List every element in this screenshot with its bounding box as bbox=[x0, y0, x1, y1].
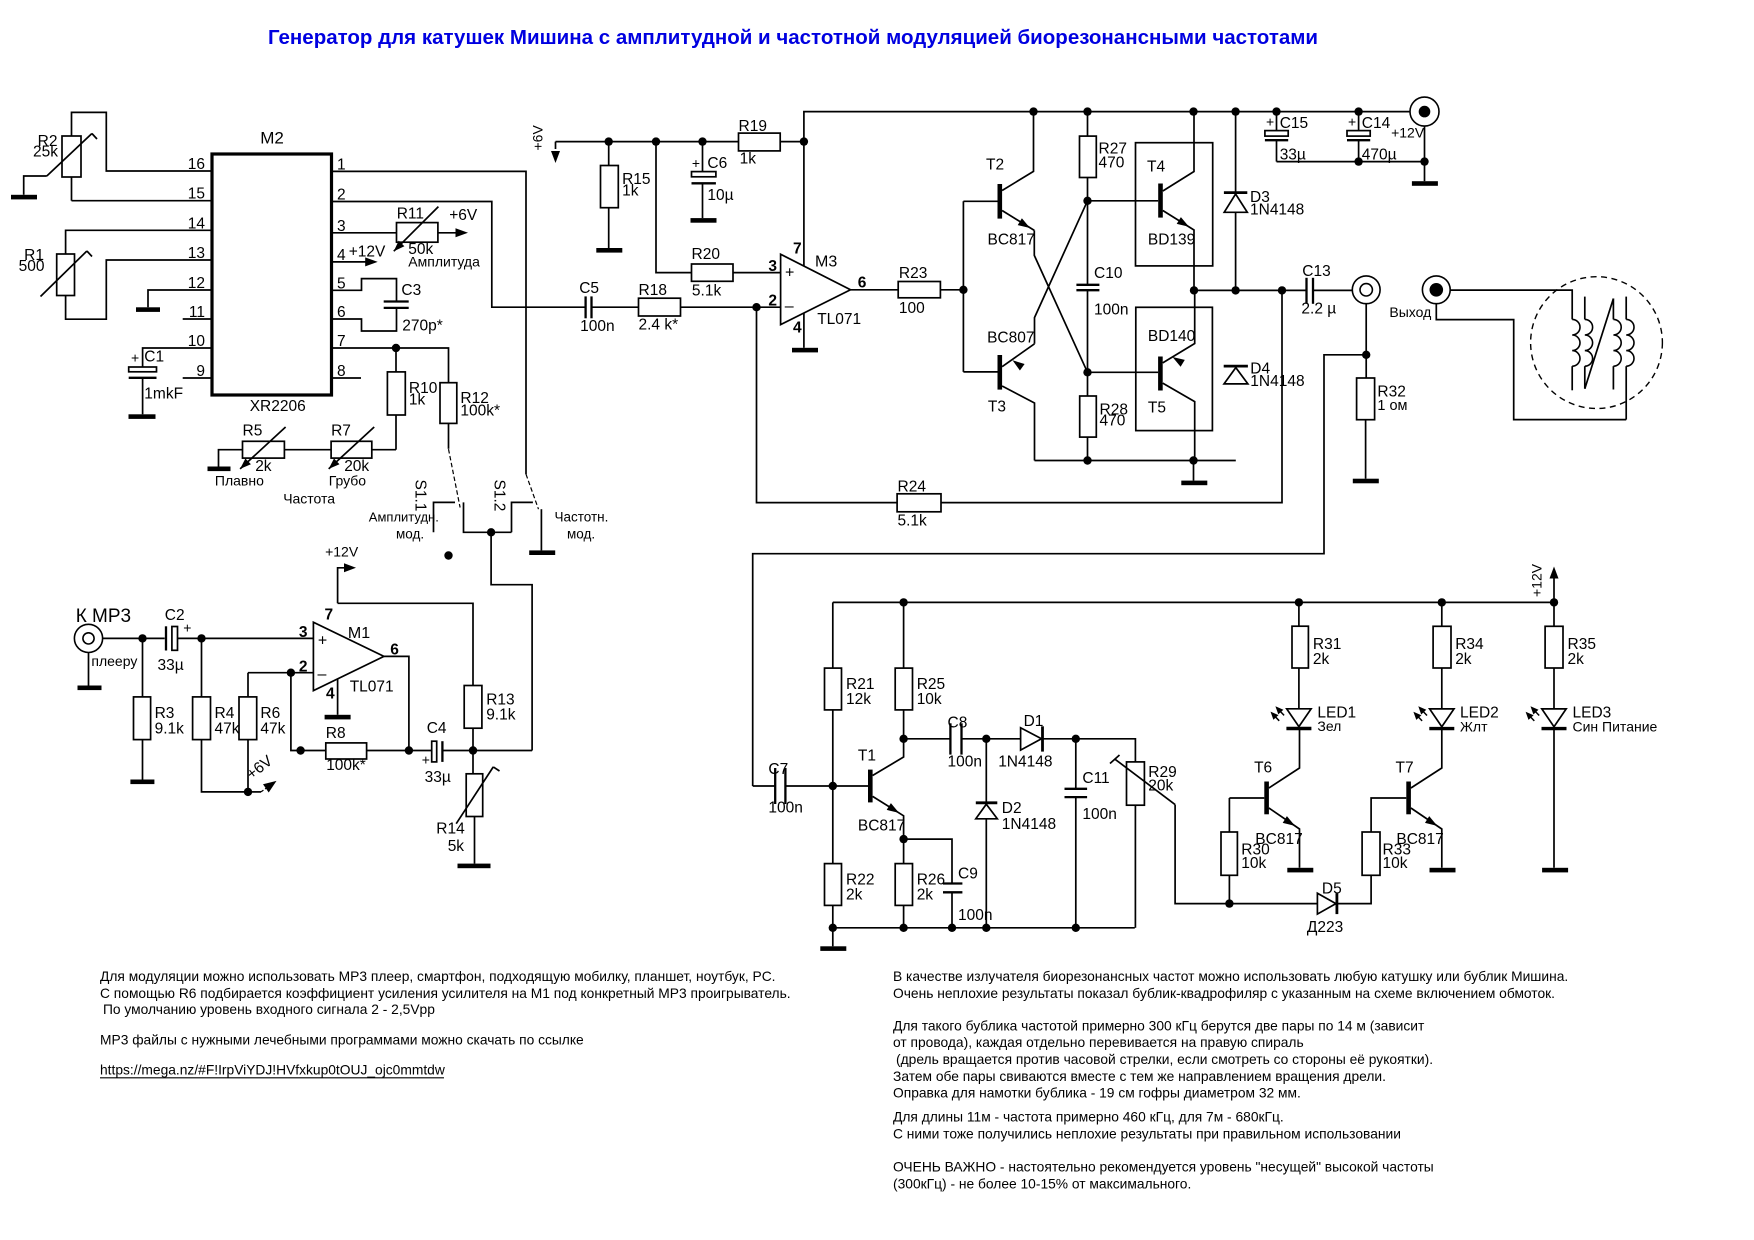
wire M1 output bbox=[384, 656, 409, 750]
wire pin 9 stub bbox=[183, 377, 212, 379]
capacitor C11 100n bbox=[1065, 739, 1117, 928]
resistor R27 470 bbox=[1080, 112, 1127, 201]
svg-text:M1: M1 bbox=[348, 625, 370, 642]
coil winding 3 bbox=[1613, 299, 1621, 390]
svg-text:D2: D2 bbox=[1002, 800, 1022, 817]
node R28 bottom bbox=[1083, 456, 1091, 464]
node R8 left bbox=[296, 746, 304, 754]
svg-text:R4: R4 bbox=[215, 705, 235, 722]
svg-text:(дрель вращается против часово: (дрель вращается против часовой стрелки,… bbox=[896, 1052, 1433, 1067]
wire R2 wiper to ground bbox=[24, 176, 47, 195]
transistor T4 BD139 bbox=[1088, 112, 1196, 291]
svg-text:Частота: Частота bbox=[283, 491, 335, 507]
svg-text:5.1k: 5.1k bbox=[692, 282, 722, 299]
wire feedback to C7 line bbox=[753, 355, 1366, 786]
svg-text:TL071: TL071 bbox=[350, 679, 394, 696]
+6V supply arrow bbox=[530, 125, 561, 163]
svg-text:1mkF: 1mkF bbox=[144, 386, 183, 403]
op-amp M3 TL071 bbox=[781, 254, 862, 329]
M2 pin 12 label bbox=[188, 275, 205, 292]
svg-text:47k: 47k bbox=[260, 721, 285, 738]
svg-text:R14: R14 bbox=[436, 821, 465, 838]
node R23 out bbox=[959, 286, 967, 294]
M2 pin 4 label bbox=[337, 247, 346, 264]
ground at LED3 bbox=[1542, 868, 1568, 873]
wire M3 output bbox=[851, 289, 899, 291]
wire R2 bottom to pin 15 bbox=[72, 177, 213, 201]
svg-text:100k*: 100k* bbox=[326, 757, 366, 774]
svg-text:В качестве излучателя биорезон: В качестве излучателя биорезонансных час… bbox=[893, 969, 1568, 984]
svg-text:470: 470 bbox=[1100, 413, 1126, 430]
M2 pin 14 label bbox=[188, 215, 206, 232]
connector K MP3 bbox=[74, 606, 137, 669]
resistor R24 5.1k bbox=[897, 290, 1282, 529]
node +12V connector bottom bbox=[1420, 157, 1428, 165]
wire pin 12 to ground bbox=[148, 290, 212, 307]
svg-text:Амплитудн.: Амплитудн. bbox=[369, 510, 439, 525]
switch S1.2 bbox=[491, 474, 542, 550]
svg-text:BD140: BD140 bbox=[1148, 328, 1196, 345]
diode D5 D223 bbox=[1229, 875, 1371, 936]
resistor R26 2k bbox=[895, 839, 945, 928]
stray junction dot bbox=[444, 551, 452, 559]
M2 pin 5 label bbox=[337, 275, 346, 292]
svg-text:2.2 µ: 2.2 µ bbox=[1301, 301, 1336, 318]
wire T2 T3 base rail bbox=[962, 201, 964, 372]
svg-text:D1: D1 bbox=[1024, 713, 1044, 730]
node rail R34 bbox=[1438, 598, 1446, 606]
node gnd rail R26 bbox=[899, 924, 907, 932]
svg-text:T2: T2 bbox=[986, 157, 1004, 174]
wire M1 pin7 to R13 bbox=[338, 603, 473, 685]
+6V arrow at R6 bbox=[243, 752, 276, 792]
node T1 base bbox=[829, 782, 837, 790]
svg-text:+12V: +12V bbox=[1529, 563, 1545, 597]
svg-text:R7: R7 bbox=[331, 423, 351, 440]
coil winding 2 bbox=[1585, 297, 1593, 389]
svg-text:T6: T6 bbox=[1254, 760, 1272, 777]
label Частотн. мод. bbox=[555, 510, 609, 542]
connector output signal bbox=[1352, 276, 1380, 304]
svg-text:1 ом: 1 ом bbox=[1377, 398, 1407, 414]
svg-text:Оправка для намотки бублика -: Оправка для намотки бублика - 19 см гофр… bbox=[893, 1086, 1301, 1101]
M1 pin 4 label bbox=[326, 686, 335, 703]
node rail C6 bbox=[698, 137, 706, 145]
svg-text:от провода), каждая отдельно п: от провода), каждая отдельно перевиваетс… bbox=[893, 1035, 1304, 1050]
svg-text:3: 3 bbox=[299, 624, 308, 641]
svg-text:2k: 2k bbox=[1455, 651, 1472, 668]
svg-text:R20: R20 bbox=[692, 246, 721, 263]
capacitor C7 100n bbox=[753, 761, 833, 817]
switch S1.1 bbox=[412, 449, 512, 532]
wire M1 inv down to R8 bbox=[291, 673, 326, 751]
svg-text:Генератор для катушек Мишина с: Генератор для катушек Мишина с амплитудн… bbox=[268, 26, 1318, 49]
M3 pin 7 label bbox=[793, 241, 802, 258]
ground at LED section bbox=[820, 928, 846, 951]
title text bbox=[268, 26, 1318, 49]
resistor R29 20k variable bbox=[1110, 755, 1177, 928]
M2 pin 3 label bbox=[337, 218, 346, 235]
node M3 inverting input bbox=[752, 303, 760, 311]
wire coil feed top bbox=[1450, 290, 1572, 319]
M3 pin 2 label bbox=[768, 293, 777, 310]
diode D1 1N4148 bbox=[998, 713, 1076, 771]
node gnd rail D2 bbox=[982, 924, 990, 932]
svg-text:2: 2 bbox=[768, 293, 777, 310]
LED2 yellow bbox=[1413, 705, 1498, 735]
wire ground rail bbox=[833, 927, 1135, 929]
capacitor C14 470u bbox=[1347, 112, 1397, 164]
ground at C1 bbox=[129, 414, 156, 419]
svg-text:C8: C8 bbox=[948, 715, 968, 732]
capacitor C4 33u bbox=[422, 720, 473, 786]
wire mid rail bbox=[1194, 289, 1307, 291]
resistor R25 10k bbox=[895, 602, 945, 738]
svg-text:3: 3 bbox=[768, 258, 777, 275]
wire pin 2 to C5 bbox=[332, 202, 586, 308]
svg-text:100: 100 bbox=[899, 300, 925, 317]
resistor R1 500 bbox=[19, 247, 92, 297]
M1 pin 3 label bbox=[299, 624, 308, 641]
box T5 bbox=[1136, 307, 1213, 430]
resistor R3 9.1k bbox=[134, 638, 185, 779]
svg-text:TL071: TL071 bbox=[817, 311, 861, 328]
resistor R34 2k bbox=[1433, 602, 1484, 709]
svg-text:Для модуляции можно использова: Для модуляции можно использовать MP3 пле… bbox=[100, 969, 776, 984]
svg-text:C10: C10 bbox=[1094, 265, 1123, 282]
capacitor C2 33u bbox=[158, 607, 202, 674]
node S1 junction bbox=[487, 528, 495, 536]
link text bbox=[100, 1062, 445, 1078]
diode D4 1N4148 bbox=[1224, 361, 1305, 391]
svg-text:2k: 2k bbox=[846, 887, 863, 904]
coil circle dashed bbox=[1531, 277, 1663, 409]
resistor R30 10k bbox=[1221, 798, 1270, 904]
connector output return bbox=[1389, 276, 1450, 320]
resistor R13 9.1k bbox=[464, 686, 516, 751]
wire R1 bottom to pin 13 bbox=[66, 260, 212, 319]
svg-text:10µ: 10µ bbox=[707, 187, 733, 204]
svg-text:+6V: +6V bbox=[530, 125, 546, 151]
M2 pin 6 label bbox=[337, 304, 346, 321]
resistor R5 2k variable bbox=[215, 423, 286, 489]
svg-text:+: + bbox=[422, 752, 430, 768]
svg-text:270p*: 270p* bbox=[402, 318, 443, 335]
node R8 right bbox=[405, 746, 413, 754]
M3 pin 3 label bbox=[768, 258, 777, 275]
M1 pin4 ground bbox=[325, 679, 351, 719]
node R4 R6 bottom bbox=[244, 788, 252, 796]
wire R5 to R7 bbox=[284, 449, 331, 451]
svg-text:С помощью R6 подбирается коэфф: С помощью R6 подбирается коэффициент уси… bbox=[100, 986, 791, 1001]
svg-text:+: + bbox=[692, 155, 700, 171]
svg-text:BD139: BD139 bbox=[1148, 231, 1195, 248]
svg-text:T4: T4 bbox=[1147, 159, 1165, 176]
resistor R35 2k bbox=[1545, 602, 1596, 709]
svg-text:100n: 100n bbox=[1082, 806, 1116, 823]
svg-text:1k: 1k bbox=[622, 183, 639, 200]
svg-text:R6: R6 bbox=[260, 705, 280, 722]
ground at R3 bbox=[130, 780, 154, 785]
svg-text:9.1k: 9.1k bbox=[155, 721, 185, 738]
resistor R7 20k variable bbox=[329, 423, 375, 489]
wire pin 10 to C1 bbox=[143, 348, 212, 367]
M3 pin 6 label bbox=[858, 275, 867, 292]
svg-text:25k: 25k bbox=[33, 144, 58, 161]
svg-text:D5: D5 bbox=[1322, 881, 1342, 898]
wire M3 inv to R24 bbox=[757, 307, 898, 502]
M1 pin 6 label bbox=[390, 642, 399, 659]
node D3 bottom bbox=[1231, 286, 1239, 294]
ground at R14 bbox=[458, 864, 491, 869]
svg-text:100n: 100n bbox=[948, 754, 982, 771]
capacitor C13 2.2u bbox=[1301, 263, 1352, 318]
wire +6V rail bbox=[556, 141, 739, 143]
node R30 bottom bbox=[1225, 899, 1233, 907]
capacitor C8 100n bbox=[904, 715, 1021, 771]
resistor R31 2k bbox=[1292, 602, 1341, 708]
svg-text:C5: C5 bbox=[579, 280, 599, 297]
svg-text:C7: C7 bbox=[768, 761, 788, 778]
svg-text:500: 500 bbox=[19, 258, 45, 275]
svg-text:мод.: мод. bbox=[396, 527, 424, 542]
connector +12V bbox=[1391, 97, 1439, 181]
svg-text:+: + bbox=[318, 633, 327, 650]
diode D2 1N4148 bbox=[976, 739, 1056, 928]
wire D1 to R29 bbox=[1076, 739, 1136, 762]
svg-text:5k: 5k bbox=[448, 838, 465, 855]
svg-text:C11: C11 bbox=[1082, 770, 1109, 787]
svg-text:M3: M3 bbox=[815, 254, 837, 271]
svg-text:1N4148: 1N4148 bbox=[998, 754, 1052, 771]
transistor T6 BC817 bbox=[1254, 727, 1303, 868]
M2 pin 8 label bbox=[337, 363, 346, 380]
box T4 bbox=[1136, 143, 1213, 266]
svg-text:C13: C13 bbox=[1302, 263, 1330, 280]
node bottom rail T5 bbox=[1189, 456, 1197, 464]
wire T3 emitter cross bbox=[1035, 201, 1088, 344]
svg-text:2.4 k*: 2.4 k* bbox=[639, 317, 679, 334]
M2 pin 10 label bbox=[188, 333, 206, 350]
wire pin 5 bracket bbox=[332, 279, 397, 302]
svg-text:Зел: Зел bbox=[1317, 718, 1341, 734]
svg-text:7: 7 bbox=[793, 241, 802, 258]
svg-text:5.1k: 5.1k bbox=[898, 513, 928, 530]
node C4 R13 R14 junction bbox=[469, 746, 477, 754]
svg-text:C1: C1 bbox=[144, 349, 164, 366]
svg-text:+: + bbox=[785, 265, 794, 282]
+12V arrow LED rail bbox=[1529, 563, 1559, 602]
svg-text:2k: 2k bbox=[1313, 651, 1330, 668]
node gnd rail C11 bbox=[1072, 924, 1080, 932]
svg-text:BC817: BC817 bbox=[1396, 831, 1443, 848]
node rail R31 bbox=[1295, 598, 1303, 606]
node R27 bottom bbox=[1083, 197, 1091, 205]
resistor R22 2k bbox=[825, 786, 875, 928]
svg-text:Очень неплохие результаты пока: Очень неплохие результаты показал бублик… bbox=[893, 986, 1555, 1001]
wire MP3 to C2 bbox=[103, 637, 165, 639]
M2 pin 2 label bbox=[337, 187, 346, 204]
svg-text:+: + bbox=[1266, 114, 1274, 130]
svg-text:+: + bbox=[131, 350, 139, 366]
wire R29 wiper down bbox=[1175, 805, 1229, 904]
capacitor C1 1mkF bbox=[129, 349, 183, 415]
resistor R12 100k bbox=[440, 383, 500, 449]
resistor R28 470 bbox=[1080, 372, 1128, 460]
resistor R10 1k bbox=[387, 348, 437, 450]
svg-text:2k: 2k bbox=[917, 887, 934, 904]
svg-text:BC817: BC817 bbox=[858, 818, 905, 835]
transistor T2 BC817 bbox=[963, 112, 1035, 249]
ground output stage bbox=[1181, 461, 1207, 486]
svg-text:20k: 20k bbox=[1148, 778, 1173, 795]
svg-text:Частотн.: Частотн. bbox=[555, 510, 609, 525]
svg-text:1k: 1k bbox=[409, 392, 426, 409]
wire coil feed bottom bbox=[1436, 304, 1626, 420]
node C11 top bbox=[1072, 735, 1080, 743]
resistor R14 5k variable bbox=[436, 751, 499, 864]
node D1 C8 bbox=[982, 735, 990, 743]
node rail R20 bbox=[652, 137, 660, 145]
svg-text:M2: M2 bbox=[260, 129, 284, 148]
ground at R5 bbox=[208, 450, 243, 471]
svg-text:Д223: Д223 bbox=[1307, 919, 1343, 936]
wire pin 4 +12V bbox=[332, 244, 386, 267]
svg-text:C4: C4 bbox=[427, 720, 447, 737]
resistor R33 10k bbox=[1362, 798, 1411, 875]
node rail R25 bbox=[899, 598, 907, 606]
wire pin 1 to S1.2 bbox=[332, 171, 527, 474]
coil winding 4 bbox=[1626, 297, 1634, 420]
svg-text:R5: R5 bbox=[243, 423, 263, 440]
svg-text:С ними тоже получились неплохи: С ними тоже получились неплохие результа… bbox=[893, 1127, 1401, 1142]
text block left bbox=[100, 969, 791, 1048]
wire pin 3 to R11 bbox=[332, 232, 397, 234]
svg-text:+12V: +12V bbox=[1391, 125, 1425, 141]
svg-text:мод.: мод. bbox=[567, 527, 595, 542]
M3 pin 4 label bbox=[793, 320, 802, 337]
svg-text:XR2206: XR2206 bbox=[250, 398, 306, 415]
svg-text:4: 4 bbox=[793, 320, 802, 337]
node M1 inverting bbox=[287, 669, 295, 677]
svg-text:R11: R11 bbox=[397, 206, 424, 223]
M1 pin 2 label bbox=[299, 659, 308, 676]
wire pin 11 stub bbox=[183, 318, 212, 320]
capacitor C9 100n bbox=[904, 839, 993, 928]
svg-text:По умолчанию уровень входного: По умолчанию уровень входного сигнала 2 … bbox=[103, 1002, 435, 1017]
svg-text:47k: 47k bbox=[215, 721, 240, 738]
text block right bbox=[893, 969, 1568, 1191]
svg-text:Грубо: Грубо bbox=[329, 473, 367, 489]
resistor R15 1k bbox=[601, 142, 651, 248]
svg-text:100n: 100n bbox=[768, 800, 802, 817]
node T1 collector bbox=[899, 735, 907, 743]
node R3 top bbox=[138, 634, 146, 642]
svg-text:Плавно: Плавно bbox=[215, 473, 264, 489]
node R4 top bbox=[197, 634, 205, 642]
wire R1 top to pin 14 bbox=[66, 230, 212, 254]
svg-text:33µ: 33µ bbox=[425, 769, 451, 786]
svg-text:BC817: BC817 bbox=[1255, 831, 1302, 848]
M1 pin 7 label bbox=[325, 607, 334, 624]
svg-text:BC807: BC807 bbox=[987, 329, 1034, 346]
capacitor C10 100n bbox=[1076, 201, 1128, 372]
svg-text:7: 7 bbox=[325, 607, 334, 624]
svg-text:+6V: +6V bbox=[449, 207, 478, 224]
svg-text:9.1k: 9.1k bbox=[486, 707, 516, 724]
resistor R4 47k bbox=[193, 638, 248, 792]
svg-text:10k: 10k bbox=[917, 691, 942, 708]
svg-text:R24: R24 bbox=[898, 479, 927, 496]
svg-text:C3: C3 bbox=[401, 282, 421, 299]
ground at C6 bbox=[691, 218, 717, 223]
svg-text:Для такого бублика частотой пр: Для такого бублика частотой примерно 300… bbox=[893, 1018, 1425, 1033]
ground at R15 bbox=[596, 248, 622, 253]
svg-text:плееру: плееру bbox=[91, 653, 137, 669]
wire output to R32 bbox=[1365, 304, 1367, 355]
node C14 bottom bbox=[1354, 157, 1362, 165]
coil series link bbox=[1585, 299, 1614, 389]
svg-text:C15: C15 bbox=[1280, 115, 1308, 132]
svg-text:T7: T7 bbox=[1396, 760, 1414, 777]
wire bottom rail output stage bbox=[1035, 460, 1236, 462]
M2 pin 9 label bbox=[196, 363, 205, 380]
LED3 blue power bbox=[1526, 705, 1658, 868]
svg-text:10k: 10k bbox=[1241, 855, 1266, 872]
op-amp M1 TL071 bbox=[313, 622, 393, 695]
node gnd rail C9 bbox=[948, 924, 956, 932]
node T4 emitter mid bbox=[1190, 286, 1198, 294]
svg-text:100n: 100n bbox=[958, 907, 992, 924]
capacitor C3 270p bbox=[384, 282, 443, 335]
wire pin 6 bracket bbox=[332, 308, 397, 331]
M2 pin 1 label bbox=[337, 156, 346, 173]
resistor R11 50k variable bbox=[394, 206, 480, 270]
svg-text:1N4148: 1N4148 bbox=[1250, 373, 1304, 390]
capacitor C15 33u bbox=[1265, 112, 1308, 164]
svg-text:R19: R19 bbox=[739, 118, 767, 135]
svg-text:(300кГц) - не более 10-15% от: (300кГц) - не более 10-15% от максимальн… bbox=[893, 1176, 1191, 1191]
svg-text:1N4148: 1N4148 bbox=[1250, 202, 1304, 219]
ground at T6 bbox=[1287, 868, 1313, 873]
resistor R32 1om bbox=[1357, 355, 1408, 479]
diode D3 1N4148 bbox=[1224, 112, 1304, 291]
node pin7-R10 bbox=[392, 344, 400, 352]
transistor T3 BC807 bbox=[963, 329, 1034, 460]
ground at S1.2 bbox=[529, 550, 555, 555]
ground at pin 12 bbox=[136, 307, 160, 312]
wire R6 top to M1 minus bbox=[248, 672, 313, 674]
M3 pin4 ground bbox=[792, 313, 818, 352]
svg-text:T5: T5 bbox=[1148, 400, 1166, 417]
svg-text:C2: C2 bbox=[165, 607, 185, 624]
svg-text:T1: T1 bbox=[858, 748, 876, 765]
ground at MP3 bbox=[78, 653, 102, 691]
wire pin 8 stub bbox=[332, 377, 362, 379]
svg-text:33µ: 33µ bbox=[158, 657, 184, 674]
svg-text:BC817: BC817 bbox=[988, 231, 1035, 248]
svg-text:R18: R18 bbox=[639, 282, 667, 299]
svg-text:MP3 файлы с нужными лечебными: MP3 файлы с нужными лечебными программам… bbox=[100, 1033, 584, 1048]
node rail R15 bbox=[605, 137, 613, 145]
wire +12V top rail bbox=[804, 112, 1410, 267]
node T1 emitter bbox=[899, 835, 907, 843]
transistor T7 BC817 bbox=[1396, 727, 1444, 868]
label Амплитудн. мод. bbox=[369, 510, 439, 542]
svg-text:1N4148: 1N4148 bbox=[1002, 816, 1056, 833]
svg-text:R23: R23 bbox=[899, 265, 927, 282]
svg-text:К MP3: К MP3 bbox=[76, 606, 131, 627]
